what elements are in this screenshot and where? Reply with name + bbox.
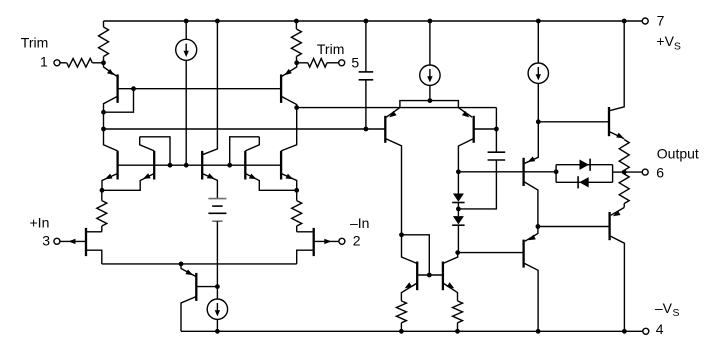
transistor Q12 bar (473, 116, 475, 143)
transistor Q18 bar (608, 212, 610, 240)
node right emitter-wire dot (294, 188, 299, 193)
battery B1 plate3 (208, 212, 226, 214)
transistor Q6 collector (245, 137, 259, 151)
capacitor C2 (488, 152, 506, 160)
node I3 dot (536, 119, 541, 124)
svg-text:4: 4 (656, 321, 664, 337)
resistor R9 (output top) (619, 140, 629, 173)
terminal pin 7 +Vs (642, 18, 648, 24)
transistor Q8 emitter lead (87, 250, 102, 264)
node D3 anode dot (456, 169, 461, 174)
transistor Q11 collector (385, 139, 401, 235)
svg-text:+In: +In (30, 214, 50, 230)
transistor Q3 collector (104, 129, 118, 151)
diode D1 (580, 159, 591, 171)
node y107 dot (294, 105, 299, 110)
label +Vs (656, 33, 681, 53)
wire Q13 base line (458, 171, 556, 173)
transistor Q14 base lead (458, 252, 524, 254)
resistor R2 (pin1 trim, horizontal) (60, 59, 104, 68)
transistor Q9 base lead (314, 239, 339, 244)
node bottom rail dots (215, 329, 627, 334)
svg-text:+V: +V (656, 33, 674, 49)
current source I2 (420, 21, 440, 101)
transistor Q1 bar (116, 74, 118, 103)
transistor Q3 bar (116, 151, 118, 180)
transistor Q4 bar (153, 151, 155, 180)
transistor Q14 bar (522, 240, 524, 268)
transistor Q10 emitter (181, 264, 196, 277)
wire mirror base line (417, 274, 443, 276)
transistor Q11 emitter (386, 108, 400, 118)
node mirror base dot (427, 273, 432, 278)
transistor Q9 collector lead (297, 231, 313, 233)
transistor Q2 bar (280, 74, 282, 103)
label pin 1 (40, 54, 48, 70)
transistor Q18 emitter (611, 208, 624, 217)
transistor Q5 emitter (202, 173, 217, 198)
label pin 4 (656, 321, 664, 337)
wire mirror collector tie (402, 235, 430, 275)
wire common base bus (118, 164, 282, 166)
terminal pin 1 Trim (54, 60, 60, 66)
transistor Q7 collector (281, 108, 297, 151)
wire +Vs top rail (104, 20, 643, 22)
node staple2-bus dot (227, 163, 232, 168)
current source I4 (207, 287, 227, 332)
current source I3 (528, 21, 548, 122)
node D3-D4 junction dot (456, 207, 461, 212)
transistor Q13 collector (524, 182, 538, 227)
label pin 2 (353, 233, 361, 249)
label +In (30, 214, 50, 230)
diode D4 (452, 203, 464, 253)
resistor R6 (-In degeneration) (292, 190, 302, 232)
transistor Q2 emitter (281, 63, 297, 77)
transistor Q12 base lead (474, 128, 497, 130)
node y129 dots (101, 127, 368, 132)
svg-text:1: 1 (40, 54, 48, 70)
diode box right side (612, 165, 614, 183)
terminal pin 3 +In (54, 238, 60, 244)
wire second stage emitter yoke (400, 101, 459, 108)
transistor Q10 bar (195, 273, 197, 301)
current source I1 (176, 21, 197, 165)
transistor Q12 emitter (458, 108, 472, 118)
diode D2 (578, 176, 589, 188)
node mirror tie dot (399, 232, 404, 237)
terminal pin 6 Output (642, 169, 648, 175)
node Q1 collector-base tie dot (101, 110, 106, 115)
transistor Q10 collector (181, 297, 196, 332)
transistor Q8 collector lead (87, 231, 102, 233)
node staple1-bus dot (168, 163, 173, 168)
svg-text:2: 2 (353, 233, 361, 249)
battery B1 plate1 (208, 198, 226, 200)
resistor R1 (left trim, vertical) (99, 21, 109, 63)
svg-text:5: 5 (351, 54, 359, 70)
resistor R7 (396, 301, 406, 331)
transistor Q18 collector (610, 236, 625, 331)
label Trim (pin 1) (21, 34, 48, 50)
wire cross couple 1 (staple) (140, 137, 170, 165)
terminal pin 4 -Vs (643, 328, 649, 334)
transistor Q12 collector (458, 139, 473, 172)
capacitor C1 (359, 72, 374, 80)
transistor Q17 collector (609, 21, 624, 111)
resistor R3 (right trim, vertical) (291, 21, 301, 63)
transistor Q10 base lead (196, 286, 217, 288)
node diode box left dot (554, 169, 559, 174)
label pin 5 (351, 54, 359, 70)
svg-text:Trim: Trim (317, 41, 344, 57)
svg-text:3: 3 (42, 233, 50, 249)
diode D3 (452, 172, 464, 203)
transistor Q13 emitter (525, 122, 539, 164)
transistor Q14 emitter (525, 227, 538, 242)
terminal pin 5 Trim (339, 60, 345, 66)
transistor Q13 bar (522, 158, 524, 186)
node bias dot on bus (179, 262, 184, 267)
wire battery to bias node (216, 221, 218, 286)
transistor Q17 bar (608, 107, 610, 136)
label -In (350, 215, 369, 231)
transistor Q15 emitter (401, 282, 417, 301)
transistor Q1 collector (104, 96, 118, 129)
node bias base dot (215, 284, 220, 289)
label pin 7 (657, 13, 665, 29)
resistor R4 (pin5 trim, horizontal) (297, 59, 339, 68)
transistor Q3 emitter (102, 174, 118, 191)
resistor R5 (+In degeneration) (97, 190, 107, 232)
node Q13 collector dot (536, 224, 541, 229)
transistor Q4 emitter (102, 173, 154, 190)
node I2 dot (428, 98, 433, 103)
transistor Q16 bar (442, 262, 444, 291)
svg-text:6: 6 (656, 164, 664, 180)
battery B1 plate2 (212, 205, 222, 207)
wire first stage right output (y107) (297, 108, 497, 129)
node top rail junction dots (184, 19, 627, 24)
wire first stage left output (y129) (104, 128, 386, 130)
wire cross couple 2 (staple) (230, 137, 260, 165)
node left emitter-wire dot (100, 188, 105, 193)
transistor Q11 bar (384, 116, 386, 143)
transistor Q6 bar (244, 151, 246, 180)
svg-text:–V: –V (655, 300, 673, 316)
diode box left side (555, 165, 557, 183)
transistor Q5 collector (202, 21, 217, 155)
svg-text:–In: –In (350, 215, 369, 231)
wire output lead (624, 171, 642, 173)
transistor Q14 collector (524, 263, 539, 331)
svg-text:7: 7 (657, 13, 665, 29)
battery B1 plate4 (212, 220, 222, 222)
label pin 3 (42, 233, 50, 249)
transistor Q16 collector (443, 253, 458, 264)
transistor Q16 emitter (443, 282, 458, 301)
wire -Vs bottom rail (181, 330, 643, 332)
capacitor C1 lead top (365, 21, 367, 72)
transistor Q17 emitter (609, 132, 624, 139)
capacitor C2 lead bottom (458, 160, 496, 209)
wire diode box to output (613, 171, 625, 173)
transistor Q6 emitter (245, 174, 296, 191)
node trim1 junction (101, 60, 106, 65)
label -Vs (655, 300, 680, 319)
transistor Q2 collector (281, 96, 297, 107)
transistor Q8 base lead (60, 239, 86, 244)
terminal pin 2 -In (339, 238, 345, 244)
label Output (657, 145, 699, 161)
label Trim (pin 5) (317, 41, 344, 57)
wire common base line (Q1-Q2) (118, 88, 282, 90)
capacitor C1 lead bottom (365, 80, 367, 129)
resistor R10 (output bottom) (619, 172, 629, 207)
transistor Q7 emitter (281, 174, 297, 191)
svg-text:Output: Output (657, 145, 699, 161)
transistor Q8 bar (85, 228, 87, 256)
transistor Q9 bar (313, 228, 315, 256)
svg-text:S: S (674, 41, 681, 53)
label pin 6 (656, 164, 664, 180)
transistor Q15 collector (402, 235, 418, 264)
wire output pnp base line (538, 226, 610, 228)
transistor Q9 emitter lead (297, 250, 313, 264)
transistor Q7 bar (280, 151, 282, 180)
svg-text:S: S (673, 307, 680, 319)
svg-text:Trim: Trim (21, 34, 48, 50)
transistor Q4 collector (140, 137, 155, 151)
capacitor C2 lead top (495, 129, 497, 152)
node base bus dot (I1) (184, 163, 189, 168)
diode D2 wire (556, 181, 613, 183)
wire output npn base line (538, 121, 609, 123)
transistor Q1 emitter (104, 63, 118, 77)
node D4 cathode dot (455, 250, 460, 255)
wire input emitter bus (102, 263, 297, 265)
resistor R8 (453, 301, 463, 331)
node Q12 base dot (494, 127, 499, 132)
transistor Q5 bar (201, 151, 203, 180)
transistor Q15 bar (416, 262, 418, 291)
diode D1 anode wire (556, 164, 613, 166)
node output dot (622, 170, 627, 175)
wire Q1 base-collector tie (104, 86, 136, 112)
node trim5 junction (294, 60, 299, 65)
